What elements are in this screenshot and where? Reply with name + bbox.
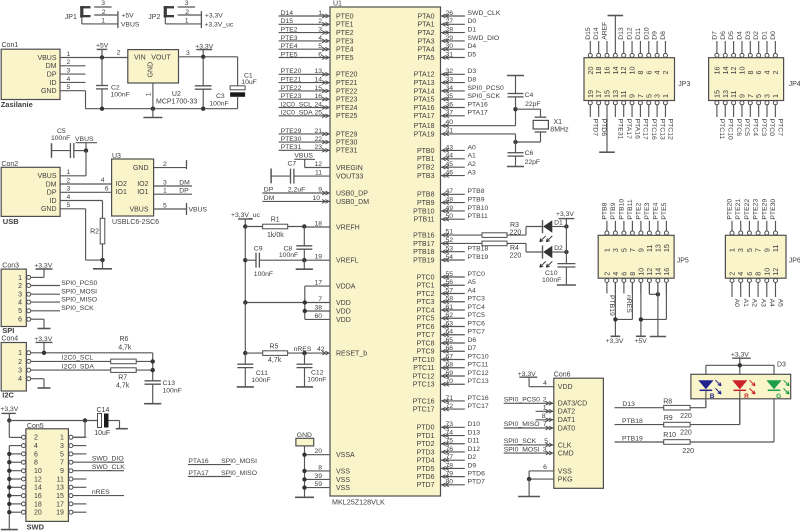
svg-text:PTB19: PTB19 <box>608 295 615 316</box>
power +3,3V JP5 <box>606 336 624 345</box>
svg-text:VOUT33: VOUT33 <box>336 174 363 181</box>
svg-text:58: 58 <box>445 296 453 303</box>
connector Con3 SPI <box>1 263 26 327</box>
U1 pin 58 PTC3 net PTC3 <box>417 296 486 307</box>
svg-text:PTA13: PTA13 <box>414 80 435 87</box>
svg-text:1: 1 <box>728 248 737 252</box>
junction VBUS C5 <box>84 148 88 152</box>
svg-text:45: 45 <box>445 161 453 168</box>
svg-text:54: 54 <box>445 254 453 261</box>
Con4 pin 3 <box>18 368 31 375</box>
svg-text:GND: GND <box>41 206 57 213</box>
U1 pin 56 PTC1 net A5 <box>417 279 476 290</box>
svg-text:PTC16: PTC16 <box>468 395 489 402</box>
svg-text:1: 1 <box>543 405 547 412</box>
svg-text:PTC7: PTC7 <box>468 329 486 336</box>
svg-text:JP6: JP6 <box>789 257 800 264</box>
ground Con4 pin4 <box>31 379 51 388</box>
svg-text:DAT1: DAT1 <box>558 417 575 424</box>
junction gnd rail C2 <box>100 107 104 111</box>
wire Con5 pin 20 to gnd rail <box>9 511 21 513</box>
svg-text:1: 1 <box>145 92 152 96</box>
svg-text:PTE29: PTE29 <box>761 199 768 220</box>
svg-text:PTB8: PTB8 <box>417 192 435 199</box>
Con2 pin 4 ID <box>50 194 71 205</box>
junction rail VDD <box>243 300 247 304</box>
svg-text:69: 69 <box>445 370 453 377</box>
svg-text:R4: R4 <box>510 245 519 252</box>
svg-text:3: 3 <box>185 0 189 7</box>
U1 pin 75 PTD2 net D11 <box>417 438 480 449</box>
Con6 pin 3 CMD net SPI0_MOSI <box>504 446 554 455</box>
svg-text:VBUS: VBUS <box>121 22 140 29</box>
svg-text:63: 63 <box>445 320 453 327</box>
JP4 pin 1 net PTC7 <box>771 94 784 136</box>
Con5 pins 14/13 <box>22 485 73 492</box>
U1 pin 34 PTA14 net SPI0_PCS0 <box>414 85 504 96</box>
U1 pin 65 PTC8 net D6 <box>417 337 477 348</box>
Con1 pin 1 VBUS <box>37 51 70 62</box>
connector JP1 3-pin jumper <box>65 6 94 24</box>
U1 pin 35 PTA15 net SPI0_SCK <box>414 93 501 104</box>
svg-text:PTA5: PTA5 <box>418 55 435 62</box>
svg-text:D10: D10 <box>643 27 650 40</box>
svg-text:D8: D8 <box>660 31 667 40</box>
wire +3,3V to C14 <box>9 420 97 422</box>
Con5 pins 20/19 <box>22 510 73 517</box>
svg-text:220: 220 <box>680 429 692 436</box>
svg-text:1: 1 <box>18 350 22 357</box>
svg-text:PTE21: PTE21 <box>735 199 742 220</box>
svg-text:PTB1: PTB1 <box>417 156 435 163</box>
svg-text:2: 2 <box>661 71 670 75</box>
svg-text:PTC13: PTC13 <box>468 378 489 385</box>
svg-text:3: 3 <box>318 27 322 34</box>
capacitor C4 22pF <box>508 76 541 126</box>
svg-text:VIN: VIN <box>134 55 146 62</box>
svg-text:23: 23 <box>314 144 322 151</box>
U1 pin 15 PTE22 net PTE22 <box>279 85 358 96</box>
power +3,3V U2 output <box>195 43 213 57</box>
svg-text:13: 13 <box>56 485 64 492</box>
svg-text:1: 1 <box>60 435 64 442</box>
JP1 pin 3 <box>94 0 111 7</box>
svg-text:4: 4 <box>34 443 38 450</box>
svg-text:VBUS: VBUS <box>37 173 56 180</box>
Con5 pins 12/11 <box>22 476 73 483</box>
net label GND box at VSSA <box>296 432 314 446</box>
svg-text:7: 7 <box>543 421 547 428</box>
svg-text:43: 43 <box>445 144 453 151</box>
JP6 pin 10 net A4 <box>762 268 775 307</box>
svg-text:220: 220 <box>682 448 694 455</box>
svg-text:36: 36 <box>445 101 453 108</box>
U1 pin 62 PTC5 net PTC5 <box>417 312 486 323</box>
svg-text:PTB10: PTB10 <box>413 208 435 215</box>
svg-text:56: 56 <box>445 279 453 286</box>
svg-text:79: 79 <box>445 471 453 478</box>
svg-text:+3,3V: +3,3V <box>556 211 574 218</box>
U1 pin 47 PTB8 net PTB8 <box>417 188 485 199</box>
svg-text:PTB8: PTB8 <box>601 202 608 219</box>
svg-text:1: 1 <box>661 94 670 98</box>
svg-text:PTC17: PTC17 <box>413 407 435 414</box>
Con1 pin 3 DP <box>47 68 71 79</box>
svg-text:41: 41 <box>445 127 453 134</box>
JP5 pin 10 <box>636 268 645 294</box>
JP3 pin 2 net D8 <box>660 31 670 75</box>
junction JP5 +3,3V <box>613 317 617 321</box>
svg-text:VDD: VDD <box>336 300 351 307</box>
resistor R3 220 <box>482 222 543 237</box>
svg-text:A0: A0 <box>468 144 477 151</box>
junction +5V C2 <box>100 55 104 59</box>
svg-text:D3: D3 <box>745 31 752 40</box>
svg-text:PTE5: PTE5 <box>661 202 668 219</box>
svg-text:+3,3V_uc: +3,3V_uc <box>204 22 234 29</box>
svg-text:SWD: SWD <box>27 522 45 531</box>
JP6 pin 11 net PTE30 <box>770 199 780 252</box>
wire D3 anode rail <box>706 365 774 380</box>
svg-text:100nF: 100nF <box>307 377 326 384</box>
svg-text:5: 5 <box>544 438 548 445</box>
U1 pin 16 PTE23 net PTE23 <box>279 93 358 104</box>
U1 pin 79 PTD6 net PTD6 <box>417 471 486 482</box>
JP1 pin 1 <box>94 18 118 25</box>
Con3 pin 5 net SPI0_SCK <box>18 305 94 315</box>
U1 pin 70 PTC13 net PTC13 <box>413 378 489 389</box>
svg-text:PTC11: PTC11 <box>718 119 725 140</box>
svg-text:57: 57 <box>445 287 453 294</box>
JP4 pin 4 net D1 <box>762 31 772 75</box>
svg-text:59: 59 <box>314 481 322 488</box>
svg-text:17: 17 <box>314 280 322 287</box>
svg-text:SPI0_MISO: SPI0_MISO <box>504 421 540 428</box>
capacitor C1 10uF <box>230 57 257 109</box>
resistor R7 4,7k <box>111 368 153 390</box>
svg-text:PTE4: PTE4 <box>652 202 659 219</box>
wire Con1 DM stub <box>60 65 86 67</box>
svg-text:SPI0_MISO: SPI0_MISO <box>61 297 97 304</box>
svg-text:SPI0_SCK: SPI0_SCK <box>468 93 501 100</box>
svg-text:VDDA: VDDA <box>336 284 356 291</box>
U1 pin 27 PTA1 net D0 <box>418 18 477 29</box>
svg-text:A1: A1 <box>468 153 477 160</box>
capacitor C12 100nF <box>297 353 327 387</box>
svg-text:62: 62 <box>445 312 453 319</box>
svg-text:4,7k: 4,7k <box>116 383 130 390</box>
svg-text:5: 5 <box>18 308 22 315</box>
U1 pin 66 PTC9 net D7 <box>417 345 477 356</box>
svg-text:5: 5 <box>163 202 167 209</box>
ground Con3 pin6 <box>31 319 51 328</box>
U1 pin 24 PTE24 net I2C0_SCL <box>279 101 358 112</box>
svg-text:PTB11: PTB11 <box>627 199 634 219</box>
wire I2C0_SCL to R6 <box>31 355 111 362</box>
svg-text:3: 3 <box>18 368 22 375</box>
svg-text:PTC3: PTC3 <box>760 119 767 137</box>
connector Con4 I2C <box>1 335 26 391</box>
svg-text:D15: D15 <box>281 18 294 25</box>
connector JP5 body <box>598 235 674 278</box>
wire pin41 node <box>515 134 517 142</box>
JP3 pin 9 net PTA16 <box>628 94 641 139</box>
JP5 pin 16 <box>662 268 671 294</box>
svg-text:PTE30: PTE30 <box>336 140 358 147</box>
svg-text:PTD4: PTD4 <box>417 458 435 465</box>
svg-text:USBLC6-2SC6: USBLC6-2SC6 <box>112 219 159 226</box>
JP3 pin 16 net AREF <box>602 22 612 75</box>
capacitor C13 100nF <box>145 380 182 404</box>
Con3 pin 2 net SPI0_PCS0 <box>18 280 98 290</box>
svg-text:PTC2: PTC2 <box>417 291 435 298</box>
svg-text:SPI0_SCK: SPI0_SCK <box>504 438 537 445</box>
capacitor C11 100nF <box>237 353 270 387</box>
svg-text:D3: D3 <box>777 361 786 368</box>
svg-text:PTC4: PTC4 <box>417 307 435 314</box>
svg-text:IO2: IO2 <box>116 181 127 188</box>
JP3 pin 18 net D14 <box>593 27 603 74</box>
junction Con5 gnd rail <box>7 502 11 506</box>
LED D2 <box>540 245 567 267</box>
wire Con2 DM to U3 <box>60 183 112 185</box>
junction Con5 gnd rail <box>7 452 11 456</box>
wire Con1 ID stub <box>60 81 86 83</box>
svg-text:2: 2 <box>18 359 22 366</box>
svg-text:PTC11: PTC11 <box>413 365 434 372</box>
svg-text:PTB11: PTB11 <box>414 217 435 224</box>
svg-text:PTE2: PTE2 <box>281 27 298 34</box>
junction Con5 gnd rail <box>7 469 11 473</box>
svg-text:PTC12: PTC12 <box>413 373 435 380</box>
U1 pin 60 VDD <box>305 303 351 324</box>
wire Con2 ID to R2 <box>60 201 102 219</box>
svg-text:MCP1700-33: MCP1700-33 <box>156 99 197 106</box>
svg-text:VBUS: VBUS <box>189 206 208 213</box>
svg-text:6: 6 <box>105 186 109 193</box>
wire Con5 pin 13 stub <box>73 486 87 488</box>
svg-text:13: 13 <box>314 68 322 75</box>
svg-text:PTD7: PTD7 <box>592 119 599 137</box>
svg-text:2: 2 <box>67 59 71 66</box>
svg-text:19: 19 <box>56 510 64 517</box>
svg-text:nRES: nRES <box>92 489 110 496</box>
svg-text:+3,3V_uc: +3,3V_uc <box>231 212 261 219</box>
U1 pin 26 PTA0 net SWD_CLK <box>418 10 501 21</box>
connector JP3 body <box>584 58 675 101</box>
svg-text:MKL25Z128VLK: MKL25Z128VLK <box>332 498 385 507</box>
svg-text:4,7k: 4,7k <box>268 357 282 364</box>
svg-text:D12: D12 <box>468 446 481 453</box>
svg-text:C6: C6 <box>525 150 534 157</box>
wire +3,3V down to pin2 <box>9 421 21 438</box>
svg-text:Zasilanie: Zasilanie <box>1 100 33 109</box>
capacitor C6 22pF <box>508 142 541 167</box>
junction R7 rail <box>151 368 155 372</box>
Con5 pin 7 net SWD_DIO <box>73 455 124 462</box>
svg-text:1: 1 <box>163 188 167 195</box>
svg-text:PTE21: PTE21 <box>281 77 302 84</box>
capacitor C9 100nF <box>245 246 273 278</box>
svg-text:PTC6: PTC6 <box>417 324 435 331</box>
svg-text:SPI0_PCS0: SPI0_PCS0 <box>468 85 504 92</box>
U1 pin 5 PTE4 net PTE4 <box>279 43 354 54</box>
svg-text:PTE23: PTE23 <box>753 199 760 220</box>
svg-text:6: 6 <box>745 272 754 276</box>
svg-text:+3,3V: +3,3V <box>731 351 749 358</box>
wire Con5 pin 10 to gnd rail <box>9 470 21 472</box>
U1 pin 46 PTB3 net A3 <box>417 170 476 181</box>
svg-text:VDD: VDD <box>336 308 351 315</box>
svg-text:12: 12 <box>771 268 780 276</box>
wire Con5 pin 4 to gnd rail <box>9 445 21 447</box>
svg-text:D1: D1 <box>762 31 769 40</box>
svg-text:PTA16: PTA16 <box>633 119 640 139</box>
JP3 pin 15 <box>599 90 615 152</box>
svg-text:A5: A5 <box>468 279 477 286</box>
svg-text:D2: D2 <box>468 454 477 461</box>
svg-text:12: 12 <box>34 476 42 483</box>
svg-text:PTE31: PTE31 <box>336 148 358 155</box>
U1 pin 64 PTC7 net PTC7 <box>417 329 486 340</box>
svg-text:DP: DP <box>264 186 274 193</box>
svg-text:5: 5 <box>67 202 71 209</box>
svg-text:D1: D1 <box>468 27 477 34</box>
svg-text:DM: DM <box>179 179 190 186</box>
regulator U2 MCP1700-33 <box>128 50 198 106</box>
U1 pin 44 PTB1 net A1 <box>417 153 476 164</box>
wire +3,3V down to Con5 pin1 <box>74 421 85 438</box>
wire JP5 pin4 to +3,3V <box>614 283 616 337</box>
Con2 pin 3 DP <box>47 186 71 197</box>
svg-text:11: 11 <box>57 476 64 483</box>
svg-text:C5: C5 <box>57 128 66 135</box>
svg-text:PTC7: PTC7 <box>777 119 784 137</box>
JP4 pin 16 net D7 <box>711 31 721 75</box>
U1 pin 11 VOUT33 <box>294 170 363 181</box>
wire VSS rail <box>304 446 306 497</box>
svg-text:C7: C7 <box>288 161 297 168</box>
U1 pin 29 PTA3 net SWD_DIO <box>418 35 500 46</box>
connector JP2 3-pin jumper <box>148 6 177 24</box>
svg-text:PTE2: PTE2 <box>635 202 642 219</box>
U1 pin 39 VSS <box>305 473 351 484</box>
svg-text:PTB10: PTB10 <box>468 205 489 212</box>
junction Con5 gnd rail <box>7 460 11 464</box>
U1 pin 57 PTC2 net A4 <box>417 287 476 298</box>
svg-text:PTB19: PTB19 <box>622 435 643 442</box>
svg-text:A2: A2 <box>751 299 758 308</box>
svg-text:4: 4 <box>18 376 22 383</box>
svg-text:3: 3 <box>163 179 167 186</box>
svg-text:JP4: JP4 <box>789 81 800 88</box>
svg-text:2: 2 <box>18 283 22 290</box>
svg-text:PTC13: PTC13 <box>413 382 435 389</box>
wire JP5 pin16 join <box>641 283 667 320</box>
svg-text:PTE20: PTE20 <box>281 68 302 75</box>
JP3 pin 11 net PTA17 <box>619 91 632 140</box>
capacitor C5 100nF <box>51 128 86 158</box>
power +3,3V Con3 <box>31 263 53 278</box>
svg-text:PTE23: PTE23 <box>281 93 302 100</box>
junction VDD node pin38 <box>303 309 307 313</box>
svg-text:Con6: Con6 <box>554 372 571 379</box>
svg-text:PTC6: PTC6 <box>468 320 486 327</box>
svg-text:VSS: VSS <box>558 468 572 475</box>
net PTB18 wire to R9 <box>615 418 664 425</box>
svg-text:19: 19 <box>314 254 322 261</box>
svg-text:5: 5 <box>67 84 71 91</box>
svg-text:DAT0: DAT0 <box>558 425 575 432</box>
junction Con5 gnd rail <box>7 510 11 514</box>
JP3 pin 7 net PTC17 <box>636 94 649 140</box>
svg-text:D6: D6 <box>720 31 727 40</box>
connector Con6 SD card <box>554 372 604 489</box>
U1 pin 37 PTA17 net PTA17 <box>414 110 488 121</box>
svg-text:A3: A3 <box>759 299 766 308</box>
svg-text:6: 6 <box>318 51 322 58</box>
svg-text:PTE31: PTE31 <box>617 119 624 140</box>
svg-text:2: 2 <box>771 71 780 75</box>
svg-text:100nF: 100nF <box>209 101 228 108</box>
junction VDD node pin7 <box>303 300 307 304</box>
junction C6 crystal <box>513 140 517 144</box>
junction R5 nRES C12 <box>302 351 306 355</box>
U1 pin 77 PTD4 net D2 <box>417 454 477 465</box>
svg-text:75: 75 <box>445 438 453 445</box>
wire JP5 pin10 to +5V <box>640 283 642 337</box>
svg-text:17: 17 <box>56 501 64 508</box>
U1 pin 80 PTD7 net PTD7 <box>417 479 486 490</box>
svg-text:D13: D13 <box>618 27 625 40</box>
capacitor C14 10uF <box>94 407 119 437</box>
svg-text:PTB8: PTB8 <box>468 188 485 195</box>
U1 pin 49 PTB10 net PTB10 <box>413 205 488 216</box>
svg-text:PTA1: PTA1 <box>418 22 435 29</box>
svg-text:SPI0_MOSI: SPI0_MOSI <box>504 446 540 453</box>
svg-text:PTB0: PTB0 <box>417 148 435 155</box>
JP4 pin 5 net PTC3 <box>754 94 767 136</box>
svg-text:D7: D7 <box>711 31 718 40</box>
net label VBUS at C5 <box>75 136 97 151</box>
svg-text:PTC12: PTC12 <box>667 119 674 140</box>
Con5 pins 2/1 <box>22 435 73 442</box>
Con4 pin 1 <box>18 350 31 357</box>
svg-text:PTB9: PTB9 <box>610 202 617 219</box>
LED D1 <box>540 220 567 242</box>
JP6 pin 4 net A1 <box>736 272 749 307</box>
capacitor C2 100nF <box>96 58 130 109</box>
svg-text:SPI0_MOSI: SPI0_MOSI <box>221 458 257 465</box>
svg-text:65: 65 <box>445 337 453 344</box>
svg-text:34: 34 <box>445 85 453 92</box>
svg-text:SWD_CLK: SWD_CLK <box>468 10 501 17</box>
svg-text:12: 12 <box>314 161 322 168</box>
svg-text:R8: R8 <box>663 399 672 406</box>
JP5 pin 3 net PTB9 <box>610 202 620 252</box>
svg-text:SPI0_MOSI: SPI0_MOSI <box>61 289 97 296</box>
junction D1 +3,3V <box>564 224 568 228</box>
svg-text:6: 6 <box>34 451 38 458</box>
svg-text:JP3: JP3 <box>678 81 690 88</box>
svg-text:C2: C2 <box>111 85 120 92</box>
svg-text:48: 48 <box>445 197 453 204</box>
U1 pin 59 VSS <box>305 481 351 492</box>
svg-text:I2C0_SDA: I2C0_SDA <box>62 363 95 370</box>
ground U2 <box>143 109 162 118</box>
JP2 pin 3 <box>178 0 195 7</box>
svg-text:100nF: 100nF <box>251 377 270 384</box>
